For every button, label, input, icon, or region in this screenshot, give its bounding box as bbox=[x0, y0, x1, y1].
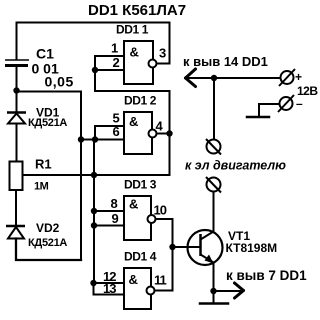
svg-text:&: & bbox=[129, 272, 138, 287]
svg-text:&: & bbox=[129, 197, 138, 212]
node supply rail junction bbox=[211, 75, 217, 81]
svg-text:0,05: 0,05 bbox=[45, 74, 74, 90]
label VD2 bbox=[28, 221, 67, 249]
wire R1 bottom to VD2 cathode bbox=[15, 190, 17, 226]
svg-text:6: 6 bbox=[113, 124, 120, 139]
node gate outputs junction bbox=[169, 244, 175, 250]
connector pin +12V bbox=[279, 69, 295, 86]
wire DD1.3 input pin 8 bbox=[94, 210, 124, 212]
wire DD1.1 input pin 2 bbox=[95, 69, 124, 71]
wire supply rail to +12V connector bbox=[186, 77, 281, 79]
svg-text:11: 11 bbox=[154, 273, 167, 288]
svg-text:13: 13 bbox=[103, 281, 116, 296]
wire DD1.3 input pin 9 bbox=[94, 225, 124, 227]
svg-text:DD1 2: DD1 2 bbox=[124, 94, 157, 108]
svg-text:4: 4 bbox=[156, 119, 164, 134]
svg-text:VD2: VD2 bbox=[36, 221, 60, 235]
svg-text:к выв 7 DD1: к выв 7 DD1 bbox=[226, 268, 307, 283]
svg-text:DD1 1: DD1 1 bbox=[116, 23, 149, 37]
svg-text:&: & bbox=[130, 45, 139, 60]
svg-text:9: 9 bbox=[112, 211, 119, 226]
svg-text:к выв 14 DD1: к выв 14 DD1 bbox=[183, 54, 268, 69]
wire supply rail down to motor connector bbox=[213, 78, 215, 140]
wire C1 bottom to VD1 and junction bbox=[16, 67, 18, 113]
wire DD1.3 output pin 10 down to base node bbox=[156, 219, 173, 291]
node DD1.2 output junction bbox=[166, 130, 172, 136]
wire DD1.2 input pin 5 bbox=[95, 126, 124, 140]
wire DD1.4 input pin 13 bbox=[94, 283, 125, 295]
wire R1 tap to bus bbox=[23, 174, 95, 176]
wire VD1 anode to R1 top bbox=[16, 124, 18, 162]
svg-text:DD1 К561ЛА7: DD1 К561ЛА7 bbox=[88, 2, 186, 19]
wire C1 junction to riser bbox=[17, 91, 82, 93]
svg-text:&: & bbox=[129, 114, 138, 129]
resistor R1 bbox=[10, 162, 23, 191]
ground bar under VT1 emitter bbox=[200, 302, 228, 305]
svg-text:КД521А: КД521А bbox=[28, 237, 67, 249]
wire DD1.1 inputs down and across to DD1.2 output node bbox=[94, 70, 170, 175]
node pin 8 junction bbox=[91, 208, 97, 214]
wire DD1.4 output pin 11 to base node bbox=[155, 290, 173, 292]
wire top feedback from DD1.1 output to C1 top bbox=[17, 23, 170, 64]
node pin 9 junction bbox=[91, 222, 97, 228]
transistor VT1 bbox=[188, 230, 223, 265]
wire DD1.2 input pin 6 from riser bbox=[81, 139, 124, 141]
node C1/VD1 junction bbox=[13, 87, 19, 93]
wire VT1 emitter down to ground bbox=[213, 264, 215, 304]
arrow to pin 14 DD1 bbox=[186, 69, 196, 87]
svg-text:C1: C1 bbox=[36, 46, 54, 62]
connector pin minus bbox=[278, 95, 294, 112]
label VD1 bbox=[28, 106, 67, 130]
wire DD1.2 output pin 4 bbox=[157, 133, 170, 135]
svg-text:+: + bbox=[295, 70, 302, 84]
node pin 12/13 junction bbox=[90, 280, 96, 286]
node emitter tap junction bbox=[210, 288, 216, 294]
svg-text:DD1 3: DD1 3 bbox=[124, 178, 157, 192]
NAND gate DD1.1 bbox=[111, 23, 166, 85]
connector pin motor lower bbox=[206, 177, 221, 193]
svg-text:DD1 4: DD1 4 bbox=[124, 250, 157, 264]
label C1 value bbox=[32, 46, 74, 90]
svg-text:10: 10 bbox=[154, 203, 167, 218]
svg-text:1М: 1М bbox=[34, 181, 49, 193]
svg-text:1: 1 bbox=[111, 41, 118, 56]
svg-text:2: 2 bbox=[113, 55, 120, 70]
label VT1 bbox=[226, 229, 278, 255]
node R1 tap junction bbox=[91, 172, 97, 178]
diode VD2 bbox=[6, 226, 25, 239]
capacitor C1 bbox=[5, 60, 29, 66]
NAND gate DD1.4 bbox=[103, 250, 167, 310]
wire VD2 anode to bottom rail bbox=[16, 239, 81, 261]
wire vertical bus x=94 down to DD1.4 inputs bbox=[93, 140, 95, 284]
svg-text:КТ8198М: КТ8198М bbox=[226, 241, 278, 255]
arrow to pin 7 DD1 bbox=[235, 283, 244, 298]
diode VD1 bbox=[7, 113, 26, 124]
NAND gate DD1.3 bbox=[111, 178, 167, 241]
label R1 bbox=[34, 157, 52, 193]
svg-text:8: 8 bbox=[111, 196, 118, 211]
wire DD1.1 output pin 3 bbox=[158, 63, 170, 65]
wire minus connector lead to chassis bbox=[259, 104, 279, 116]
wire DD1.1 input pin 1 bbox=[95, 56, 124, 70]
wire base node to VT1 base bbox=[173, 246, 201, 248]
node riser/pin6 junction bbox=[78, 136, 84, 142]
wire motor connector to VT1 collector bbox=[213, 192, 215, 232]
label +12V bbox=[295, 70, 318, 98]
node DD1.1 input junction bbox=[92, 67, 98, 73]
svg-text:к эл двигателю: к эл двигателю bbox=[185, 159, 286, 173]
wire vertical riser x=81 from C1 junction line down to bottom rail bbox=[80, 92, 82, 261]
connector pin motor upper bbox=[206, 139, 221, 155]
svg-text:–: – bbox=[296, 97, 303, 111]
chassis ground bar at minus terminal bbox=[247, 116, 269, 119]
NAND gate DD1.2 bbox=[113, 94, 164, 155]
wire emitter tap to pin 7 arrow bbox=[214, 290, 241, 292]
svg-text:R1: R1 bbox=[35, 157, 52, 172]
node pin5/pin6 junction bbox=[92, 136, 98, 142]
svg-text:КД521А: КД521А bbox=[28, 117, 67, 129]
svg-text:3: 3 bbox=[159, 46, 166, 61]
wire DD1.4 input pin 12 bbox=[94, 282, 125, 284]
